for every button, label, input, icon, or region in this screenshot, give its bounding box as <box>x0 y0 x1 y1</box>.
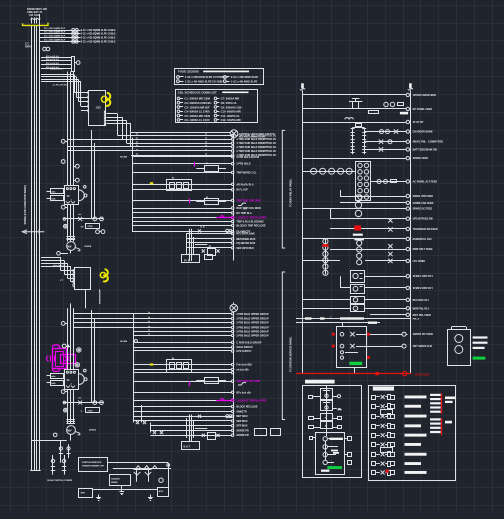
svg-text:ES 1a 4.2 0.4: ES 1a 4.2 0.4 <box>46 62 59 65</box>
breaker Q2 right arcs <box>79 369 87 384</box>
breaker Q1 <box>65 186 79 205</box>
svg-text:SPARE DC FEED: SPARE DC FEED <box>413 208 433 211</box>
aux power box 2 <box>110 475 131 486</box>
lower relay row y425 <box>150 425 247 428</box>
spare feeder arrow <box>22 229 44 234</box>
svg-text:B A T: B A T <box>184 445 191 449</box>
table 2 title <box>178 91 249 95</box>
legend note text 1 <box>445 397 456 404</box>
magenta tick 2 <box>189 199 191 204</box>
svg-text:C2- 2000/5A C800 BU: C2- 2000/5A C800 BU <box>184 101 211 105</box>
ground g2 <box>148 495 153 501</box>
relay box 87-4 <box>351 305 365 312</box>
machine top circle <box>62 344 70 348</box>
table 1 title <box>178 70 249 74</box>
svg-text:SPARE FEED: SPARE FEED <box>413 157 429 160</box>
CT coil stack upper <box>67 237 76 240</box>
svg-text:C.T.: C.T. <box>25 44 29 46</box>
staircase to T2 <box>41 258 74 282</box>
legend under bar <box>321 470 329 472</box>
svg-text:C5- 300/5A MR C200: C5- 300/5A MR C200 <box>184 114 210 118</box>
relay row y189 <box>132 189 248 192</box>
svg-text:XFMR 2 DIFF RLY: XFMR 2 DIFF RLY <box>413 287 434 290</box>
yellow dot upper <box>150 182 153 184</box>
svg-text:200/5A: 200/5A <box>89 428 96 431</box>
svg-text:STATION SERVICE: STATION SERVICE <box>82 461 102 464</box>
svg-text:3C x 500 SQMM XLP: 3C x 500 SQMM XLP <box>44 28 66 30</box>
extra dc row b <box>340 190 433 198</box>
svg-text:125VDC NEG: 125VDC NEG <box>415 374 430 377</box>
svg-text:MCAM: MCAM <box>120 156 127 159</box>
breaker Q1 right arcs <box>79 186 87 201</box>
surge arrester branch 2 <box>39 31 116 35</box>
legend red square <box>386 470 389 473</box>
legend spine 2 <box>325 441 327 460</box>
svg-text:SER /DFR MUX: SER /DFR MUX <box>236 247 254 250</box>
left legend table title <box>305 380 335 384</box>
svg-text:COMM CAB FEED: COMM CAB FEED <box>413 202 434 205</box>
svg-text:27/59: 27/59 <box>88 411 94 413</box>
magenta highlight wire upper <box>216 215 234 218</box>
lower relay row y392 <box>134 391 251 394</box>
svg-text:RATIO: RATIO <box>25 45 32 48</box>
yellow dot lower <box>150 363 153 365</box>
legend breaker cluster 1 <box>309 389 341 401</box>
charger winding right <box>362 128 366 155</box>
breaker Q1 CT top <box>61 160 65 164</box>
annunciator drop to neg bus <box>343 323 355 374</box>
ann row 2 <box>366 344 431 348</box>
lower relay row y347 <box>134 346 253 349</box>
svg-text:CBL SCHEDULE CONN LIST: CBL SCHEDULE CONN LIST <box>178 91 217 95</box>
svg-text:UPS BYPASS SW: UPS BYPASS SW <box>413 218 434 221</box>
svg-text:xfmr: xfmr <box>243 209 247 211</box>
main 66kV bus vertical lines <box>32 14 40 470</box>
svg-text:BU TRIP RLA: BU TRIP RLA <box>236 212 252 215</box>
annunciator box <box>337 327 367 368</box>
dc negative red bus <box>296 371 430 376</box>
legend note bars 1 <box>430 394 441 413</box>
svg-text:MCAM: MCAM <box>120 340 127 343</box>
relay row y225 <box>132 224 266 227</box>
dc row 4 <box>364 129 433 133</box>
svg-text:C11- 300/5A CL: C11- 300/5A CL <box>221 114 241 118</box>
breaker Q2 left aux boxes <box>47 374 64 386</box>
bottom bus end ticks <box>30 470 41 472</box>
svg-text:C8- 50/5A CL: C8- 50/5A CL <box>221 101 238 105</box>
svg-text:100VA CONTROL POWER: 100VA CONTROL POWER <box>47 479 73 482</box>
VS box upper <box>81 224 100 229</box>
battery unit box <box>448 327 471 366</box>
surge arrester branch 3 <box>39 35 116 39</box>
dc row 14 <box>303 298 430 302</box>
svg-text:AC PANEL ALT FEED: AC PANEL ALT FEED <box>413 181 438 184</box>
svg-text:ES 1a 4.2 0.4: ES 1a 4.2 0.4 <box>46 58 59 61</box>
lower relay row y381 <box>134 380 260 383</box>
svg-text:C1- 300/5A MR C200: C1- 300/5A MR C200 <box>184 97 210 101</box>
svg-text:2 PR5 SHLD UPPER GROUP: 2 PR5 SHLD UPPER GROUP <box>236 334 269 337</box>
cable staircase to T1 <box>41 75 81 107</box>
feeder bundle upper <box>68 72 74 242</box>
svg-text:TRIP BKR52-1 CL: TRIP BKR52-1 CL <box>236 172 257 175</box>
bottom components lower group <box>187 415 281 442</box>
table 2 row 6 <box>177 118 241 122</box>
legend red line 1 <box>441 393 443 414</box>
transformer T2 delta winding (yellow) <box>100 269 108 281</box>
junction circles upper <box>0 0 1 1</box>
lower feeder row y318 <box>74 317 269 321</box>
bottom components upper group <box>187 227 233 262</box>
contact legend row 9 <box>372 471 427 476</box>
svg-text:3C x 500 SQMM XLP: 3C x 500 SQMM XLP <box>44 31 66 33</box>
lockout relay block 86 <box>167 177 192 190</box>
ct chain left <box>322 239 328 276</box>
dc row 13 <box>340 276 433 290</box>
relay box 87-2 <box>351 285 365 294</box>
VT secondary line lower <box>92 310 95 403</box>
lower feeder row y335 <box>134 334 269 338</box>
svg-text:C4- 600/5A CL C400: C4- 600/5A CL C400 <box>184 110 210 114</box>
svg-text:PANEL: PANEL <box>111 481 119 484</box>
legend left tap box <box>310 437 316 440</box>
svg-text:ANNTR CKT BKR: ANNTR CKT BKR <box>413 333 433 336</box>
legend breaker cluster 2 <box>321 400 342 411</box>
svg-text:4 TWO PAIR SHLD PERMITTED 1/C: 4 TWO PAIR SHLD PERMITTED 1/C <box>236 146 276 149</box>
svg-text:fdr: fdr <box>79 398 82 400</box>
incoming line title text <box>27 7 47 17</box>
svg-text:3-1C x 630 SQMM XLPE CABLE: 3-1C x 630 SQMM XLPE CABLE <box>81 37 116 40</box>
meter M2 <box>67 426 97 441</box>
svg-text:1-1C x 4/0 AWG XLPE: 1-1C x 4/0 AWG XLPE <box>231 79 258 83</box>
svg-text:43: 43 <box>206 162 208 165</box>
svg-text:XFMR 1 DIFF RLY: XFMR 1 DIFF RLY <box>413 275 434 278</box>
svg-text:BATT DISC/MAIN SW: BATT DISC/MAIN SW <box>413 148 438 151</box>
svg-text:PNL A: PNL A <box>413 318 420 321</box>
feeder bundle lower <box>68 303 74 423</box>
CT label <box>25 44 32 49</box>
dc row 11 <box>303 259 425 263</box>
VS box lower <box>81 408 100 414</box>
aux small box 3 <box>79 489 93 498</box>
charger top link <box>353 124 365 128</box>
left donut upper <box>64 224 68 228</box>
svg-text:LOCKOUT TRIP BA OPER: LOCKOUT TRIP BA OPER <box>236 216 266 219</box>
table 1 row 1 <box>177 75 259 79</box>
ann red dot right 1 <box>367 333 370 336</box>
svg-text:BI F.L KIP: BI F.L KIP <box>236 189 248 192</box>
lower relay row y411 <box>134 410 247 413</box>
svg-text:TRIP & RLA BLOCKING: TRIP & RLA BLOCKING <box>236 220 263 223</box>
PIE box upper <box>182 255 213 263</box>
bus termination fuses <box>51 455 66 475</box>
svg-text:LOCKOUT TRIP BA OPER: LOCKOUT TRIP BA OPER <box>236 399 266 402</box>
svg-text:TRANSFER SW FEED: TRANSFER SW FEED <box>413 228 438 231</box>
svg-text:GSU: GSU <box>96 107 101 109</box>
svg-text:SPARE (FOR CAPACITOR BANK): SPARE (FOR CAPACITOR BANK) <box>24 185 27 224</box>
disconnect switch DS1 <box>72 57 80 72</box>
transformer T1 secondary winding <box>103 111 106 127</box>
extra dc row c <box>340 201 434 205</box>
surge arrester branch 4 <box>39 39 116 43</box>
lower relay row y416 <box>134 415 248 418</box>
svg-text:Poh bote BBr: Poh bote BBr <box>236 364 252 367</box>
svg-text:P I E: P I E <box>184 258 190 262</box>
svg-text:200/5A: 200/5A <box>84 245 91 248</box>
svg-text:4 TWO PAIR SHLD PERMITTED 1/C: 4 TWO PAIR SHLD PERMITTED 1/C <box>236 142 276 145</box>
svg-text:DC PANEL FEED: DC PANEL FEED <box>413 108 433 111</box>
svg-text:MET MUX: MET MUX <box>236 415 248 418</box>
svg-text:DFR MUX: DFR MUX <box>236 425 247 428</box>
cable termination marks <box>31 18 41 24</box>
dc row 5 <box>364 140 443 144</box>
svg-text:4 TWO PAIR SHLD PERMITTED 1/C: 4 TWO PAIR SHLD PERMITTED 1/C <box>236 138 276 141</box>
svg-text:SPARE PR: SPARE PR <box>236 434 249 437</box>
VT junction row lower <box>63 398 103 405</box>
lower feeder row y327 <box>74 326 269 330</box>
svg-text:43: 43 <box>206 196 208 199</box>
ground g1 <box>96 495 101 501</box>
svg-text:DIST PNL FEED: DIST PNL FEED <box>413 314 431 317</box>
legend coil 3 <box>323 452 352 457</box>
svg-text:SPARE PR: SPARE PR <box>236 429 249 432</box>
disconnect row 3 <box>41 62 72 65</box>
upper ladder left rail <box>132 138 134 232</box>
dc row 1 <box>303 93 437 97</box>
svg-text:nd bot dBr: nd bot dBr <box>236 368 248 371</box>
lower relay row y435 <box>150 434 249 437</box>
typ note bubble <box>230 130 275 139</box>
relay row y243 <box>186 242 256 245</box>
fuse pair cluster <box>134 469 152 482</box>
contact legend row 6 <box>372 443 422 448</box>
relay row y247 <box>186 247 254 250</box>
section bracket 2 <box>282 272 292 420</box>
dc bus left rail <box>300 83 305 373</box>
svg-text:BKR FAIL RLY: BKR FAIL RLY <box>413 307 430 310</box>
table 1 frame <box>175 69 264 85</box>
lower ladder left rail <box>120 314 163 434</box>
magenta tick 3 <box>189 381 191 386</box>
svg-text:MW: MW <box>67 429 72 432</box>
svg-text:48VDC PNL - COMM FEED: 48VDC PNL - COMM FEED <box>413 141 444 144</box>
station service tap <box>32 441 67 463</box>
svg-text:2 PR5 SHLD UPPER GROUP: 2 PR5 SHLD UPPER GROUP <box>236 330 269 333</box>
ct chain mid <box>355 238 364 265</box>
meter M1 <box>67 242 92 254</box>
breaker Q1 aux circles <box>74 164 80 182</box>
lower relay row y342 <box>134 341 262 344</box>
aux contact cluster B <box>196 196 247 211</box>
svg-text:DWR SPLY FEED: DWR SPLY FEED <box>413 248 433 251</box>
svg-text:BUS DIFF RLY: BUS DIFF RLY <box>413 299 430 302</box>
dc row 7 <box>303 195 433 211</box>
svg-text:3C x 500 SQMM XLP: 3C x 500 SQMM XLP <box>44 35 66 37</box>
lower feeder row y313 <box>74 312 269 316</box>
svg-text:C3- 1200/5A MR DIF: C3- 1200/5A MR DIF <box>184 105 209 109</box>
dc row 3 <box>303 118 425 124</box>
legend red line 2 <box>441 418 443 436</box>
red element row <box>330 225 438 235</box>
svg-text:TRANSFORMER 1PH: TRANSFORMER 1PH <box>82 465 104 468</box>
table 2 frame <box>176 90 258 123</box>
dc row 2 components <box>303 98 433 114</box>
extra dc row d <box>370 313 431 317</box>
legend coil 1 <box>323 437 352 441</box>
legend note bars 2 <box>430 418 441 433</box>
svg-text:2 PR5 SHLD UPPER GROUP: 2 PR5 SHLD UPPER GROUP <box>236 322 269 325</box>
aux contact cluster C <box>196 378 246 386</box>
VT junction row upper <box>63 214 103 221</box>
dc row 8 <box>330 209 433 223</box>
svg-text:120/240V: 120/240V <box>111 477 121 480</box>
dc row 6 <box>364 147 437 151</box>
contact legend row 3 <box>372 410 427 419</box>
Q1 bottom CT <box>61 205 68 209</box>
lv components <box>59 444 71 458</box>
magenta highlight wire lower <box>216 398 234 401</box>
aux feeder wire <box>113 466 171 469</box>
legend coil 2 <box>323 445 338 452</box>
svg-text:ANNCTR: ANNCTR <box>236 410 247 413</box>
lower relay row y430 <box>150 429 249 432</box>
svg-text:TRIP TRIP TRIP JRIP: TRIP TRIP TRIP JRIP <box>236 199 260 202</box>
svg-text:SPD: SPD <box>81 493 86 495</box>
relay row y212 <box>132 212 252 215</box>
svg-text:HTR SUPPLY: HTR SUPPLY <box>236 350 252 353</box>
svg-text:2-1C x 350 MCM XLPE: 2-1C x 350 MCM XLPE <box>231 75 259 79</box>
ann red dot right 2 <box>367 356 370 359</box>
lower relay row y406 <box>134 405 258 408</box>
table 2 row 3 <box>177 105 242 109</box>
contact legend row 8 <box>372 462 422 467</box>
dc row 9 <box>303 237 432 241</box>
legend green bar <box>327 466 342 469</box>
upper AC bus node <box>233 135 235 261</box>
relay row y208 <box>132 207 261 210</box>
T1 secondary staircase <box>106 114 131 147</box>
legend aux cluster <box>309 414 342 429</box>
svg-text:ALL PNL CONNECTIONS: ALL PNL CONNECTIONS <box>239 135 265 138</box>
lower relay row y351 <box>134 350 252 353</box>
table 2 row 1 <box>177 97 239 101</box>
svg-text:-Cs Fb w/F 3/C: -Cs Fb w/F 3/C <box>52 85 67 87</box>
svg-text:SER MUX: SER MUX <box>236 420 247 423</box>
contact legend row 1 <box>372 395 427 400</box>
extra dc row a <box>303 157 429 161</box>
svg-text:AR RchTo RLA: AR RchTo RLA <box>236 183 254 186</box>
relay row y156 <box>132 156 260 159</box>
ac aux row <box>303 168 356 174</box>
relay row y221 <box>132 220 264 223</box>
svg-text:TO 66KV RELAY PANEL: TO 66KV RELAY PANEL <box>290 178 293 207</box>
transformer T2 primary <box>60 268 91 290</box>
bus feeder row y139 <box>68 137 277 141</box>
left legend table frame <box>303 386 362 478</box>
legend inner frame <box>316 433 345 475</box>
relay row y184 <box>132 183 254 186</box>
svg-text:ESSENTIAL SVC: ESSENTIAL SVC <box>413 238 433 241</box>
panel feed row B <box>296 322 380 324</box>
breaker Q2 <box>65 370 79 390</box>
cluster circle <box>159 478 163 482</box>
bottom link wire <box>93 485 157 489</box>
relay row y217 <box>132 216 267 219</box>
disconnect row 1 <box>41 55 72 58</box>
svg-text:C6- 100/5A CL C100: C6- 100/5A CL C100 <box>184 118 210 122</box>
battery box lower <box>182 442 200 450</box>
bus feeder row y146 <box>68 145 277 149</box>
M1 side circle <box>57 252 68 256</box>
svg-text:3C x 500 SQMM XLP: 3C x 500 SQMM XLP <box>44 39 66 41</box>
typ feeder wire <box>131 132 230 134</box>
disconnect row 2 <box>41 58 72 61</box>
ground g3 <box>119 489 124 495</box>
dc bus right rail <box>408 83 413 373</box>
yellow bus highlight <box>23 23 49 26</box>
legend note text 2 <box>445 421 452 424</box>
ac aux row 2 <box>371 180 437 184</box>
relay row y172 <box>132 171 257 174</box>
svg-text:C9- 2000/5A C80: C9- 2000/5A C80 <box>221 105 242 109</box>
spare feeder label <box>24 185 27 224</box>
right legend title bar <box>373 386 394 390</box>
svg-text:METERING MUX: METERING MUX <box>236 238 255 241</box>
bus feeder row y155 <box>131 154 276 158</box>
svg-text:fdr: fdr <box>79 214 82 216</box>
right legend table frame <box>369 386 456 481</box>
svg-text:1a 1b: 1a 1b <box>200 227 206 229</box>
svg-text:27/59: 27/59 <box>88 226 94 228</box>
Q2 bottom CT <box>61 390 68 394</box>
ann row 1 <box>366 332 433 336</box>
svg-text:RTU DATA LINK: RTU DATA LINK <box>236 233 255 236</box>
lower relay row y372 <box>134 371 234 373</box>
surge arrester branch 1 <box>39 28 116 32</box>
relay box 87-1 <box>351 271 365 283</box>
vt cluster box <box>356 162 371 201</box>
magenta tick 1 <box>194 162 196 167</box>
battery unit labels <box>473 336 488 359</box>
svg-text:CHARGER BANK: CHARGER BANK <box>413 131 433 134</box>
lockout relay block 86 lower <box>167 358 192 373</box>
table 1 row 2 <box>177 79 258 83</box>
transformer T1 delta winding (yellow) <box>96 93 110 110</box>
svg-text:125VDC MAIN FEED: 125VDC MAIN FEED <box>413 94 437 97</box>
bus feeder row y143 <box>127 142 277 146</box>
svg-text:C10- 600/5A MR: C10- 600/5A MR <box>221 110 241 114</box>
machine right donut 1 <box>77 348 81 352</box>
svg-text:C7- 300/5A MR: C7- 300/5A MR <box>221 97 240 101</box>
bus feeder row y135 <box>118 134 277 138</box>
svg-text:MW: MW <box>67 245 72 248</box>
relay row y238 <box>186 238 256 241</box>
bus termination text <box>47 479 73 482</box>
svg-text:SWGR HTR FEED: SWGR HTR FEED <box>413 195 434 198</box>
svg-text:AT HT BT: AT HT BT <box>413 121 424 124</box>
lower feeder row y322 <box>74 321 269 325</box>
svg-text:SHLD GROUP: SHLD GROUP <box>236 346 253 349</box>
circle pair under VS <box>96 230 105 234</box>
svg-text:TO STATION SERVICE PANEL: TO STATION SERVICE PANEL <box>290 336 293 372</box>
svg-text:C12- 100/5A MR: C12- 100/5A MR <box>221 118 241 122</box>
contact legend row 7 <box>372 448 427 457</box>
relay row y231 <box>132 231 251 234</box>
svg-text:CONTROL CABLE DEST TYP FOR: CONTROL CABLE DEST TYP FOR <box>239 132 275 135</box>
table 2 row 4 <box>177 110 241 114</box>
svg-text:ANY SWGR ALM: ANY SWGR ALM <box>413 345 432 348</box>
dc row 10 <box>330 244 433 256</box>
charger winding left <box>351 128 355 155</box>
